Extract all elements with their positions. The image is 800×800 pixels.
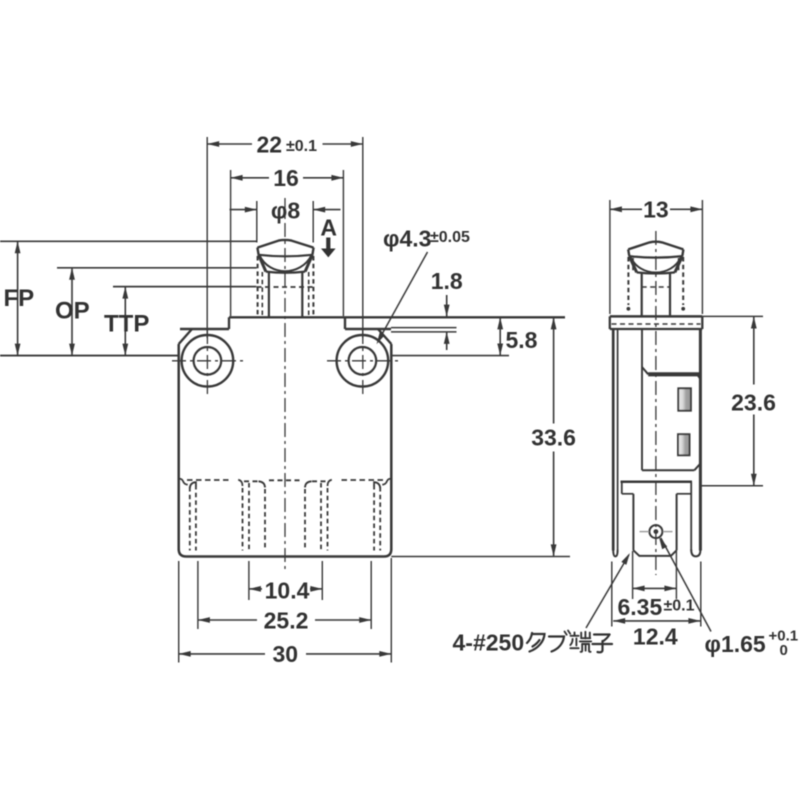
front plunger inner hidden dashed lines <box>261 272 263 316</box>
dim 10.4 extension lines <box>248 561 250 600</box>
svg-text:φ4.3: φ4.3 <box>383 226 431 252</box>
side view bracket left inner wall <box>632 494 634 551</box>
parting line left edge curve <box>179 479 188 485</box>
side view head bottom line <box>610 328 703 330</box>
side view head top line with right extension <box>610 315 703 318</box>
hidden terminal dashed line x=189.8 <box>189 487 191 551</box>
dim phi8 extension lines <box>256 201 258 243</box>
dim 6.35 extension lines <box>632 551 634 599</box>
dim 25.2 line <box>198 619 257 621</box>
front plunger cap rim bottom <box>259 255 313 256</box>
svg-text:10.4: 10.4 <box>265 578 310 604</box>
right lug horizontal centerline <box>327 360 398 362</box>
section arrow A <box>321 238 336 258</box>
terminal hole center marks <box>640 531 650 533</box>
side plunger skirt sides <box>629 256 636 272</box>
front plunger skirt inner curve <box>260 255 312 271</box>
front plunger cap dome <box>257 240 313 248</box>
dim 1.8 arrows <box>446 295 448 317</box>
parting line hook at x=305 <box>305 481 312 487</box>
hidden terminal dashed line x=321 <box>320 483 322 551</box>
leader line phi1.65 <box>661 538 711 632</box>
side view left leg U channel bottom <box>613 550 617 557</box>
dim 22 line <box>207 143 252 145</box>
svg-text:OP: OP <box>55 298 90 325</box>
front plunger stem hidden dashed line TTP level <box>257 286 314 288</box>
front plunger stem <box>268 272 270 317</box>
svg-text:TTP: TTP <box>104 311 149 338</box>
right mounting hole phi4.3 <box>349 347 377 375</box>
parting line hook into left pair <box>190 482 196 488</box>
side view right notch triangle <box>696 374 701 381</box>
left mounting lug outer circle <box>182 335 234 387</box>
dim 30 line <box>179 653 265 655</box>
side view terminal slot lower <box>678 434 690 455</box>
front view vertical centerline <box>284 198 286 571</box>
side view bracket right step <box>677 493 692 495</box>
side plunger hidden line end dots <box>627 307 631 311</box>
hidden terminal dashed line x=265 <box>264 489 266 551</box>
dim 6.35 line <box>633 587 677 589</box>
side view cover chamfer <box>642 367 648 374</box>
svg-text:12.4: 12.4 <box>633 624 678 650</box>
parting line hook at x=265 <box>259 481 266 487</box>
dim 12.4 line <box>613 620 700 622</box>
terminal hole phi1.65 <box>649 525 662 538</box>
dim 22 extension lines <box>206 137 208 338</box>
terminal label glyph TA <box>527 633 545 652</box>
front plunger hole hidden dashed lines <box>257 256 259 316</box>
right lug vertical centerline <box>362 330 364 396</box>
parting line hook at x=242 <box>238 480 242 486</box>
svg-text:25.2: 25.2 <box>264 608 309 634</box>
dim 16 line <box>231 177 269 179</box>
front view shoulder extension lines right <box>391 327 457 329</box>
side view bracket left step <box>622 493 634 495</box>
dim 13 line <box>610 208 642 210</box>
FP dimension arrow <box>17 241 19 355</box>
front view plateau top line with right extension <box>229 316 565 318</box>
TTP dimension arrow <box>124 287 126 356</box>
side view head sides <box>609 316 611 329</box>
left lug horizontal centerline <box>172 360 243 362</box>
hidden terminal dashed line x=327.5 <box>327 488 329 551</box>
left mounting hole phi4.3 <box>194 347 222 375</box>
hidden terminal dashed line x=374.1 <box>373 485 375 551</box>
hidden terminal dashed line x=195.9 <box>195 485 197 551</box>
svg-text:16: 16 <box>273 165 299 191</box>
front view right body edge <box>390 344 393 550</box>
side view lower diagonal <box>694 464 700 471</box>
terminal hole center dot <box>654 529 659 534</box>
dim 23.6 extension line bottom <box>700 485 763 487</box>
svg-text:0: 0 <box>780 642 788 659</box>
svg-text:A: A <box>320 214 337 240</box>
TTP reference line <box>113 286 256 288</box>
front plunger skirt bottom <box>266 272 305 273</box>
mounting surface line left <box>0 355 179 357</box>
svg-text:22: 22 <box>257 132 283 158</box>
front view plateau right step <box>344 317 346 329</box>
dim 25.2 extension lines <box>197 561 199 629</box>
front plunger skirt sides <box>259 255 266 272</box>
svg-text:±0.05: ±0.05 <box>430 229 470 246</box>
hidden terminal dashed line x=305 <box>304 489 306 551</box>
terminal label glyph BU <box>549 631 570 652</box>
left lug vertical centerline <box>206 330 208 396</box>
side plunger inner short dashes <box>632 258 634 272</box>
side plunger skirt inner curve <box>630 257 681 273</box>
side plunger skirt bottom <box>637 272 675 273</box>
side plunger cap rim sides <box>628 249 629 256</box>
right mounting lug outer circle <box>337 335 389 387</box>
side view bracket left lip <box>621 482 623 494</box>
svg-text:±0.1: ±0.1 <box>664 598 695 615</box>
svg-text:13: 13 <box>643 197 669 223</box>
svg-text:23.6: 23.6 <box>731 390 776 416</box>
svg-text:33.6: 33.6 <box>531 425 576 451</box>
side view case bottom line <box>621 481 693 484</box>
svg-text:6.35: 6.35 <box>618 594 663 620</box>
svg-text:φ1.65: φ1.65 <box>705 631 766 657</box>
leader line phi4.3 <box>379 252 428 340</box>
svg-text:1.8: 1.8 <box>431 268 463 294</box>
side view thick horizontal line <box>648 372 700 376</box>
svg-text:FP: FP <box>4 285 35 312</box>
svg-text:φ8: φ8 <box>271 197 300 223</box>
hidden terminal dashed line x=242.5 <box>242 488 244 551</box>
dim 10.4 line <box>249 588 262 590</box>
front view top-right chamfer <box>378 329 391 344</box>
front plunger cap rim sides <box>257 248 258 255</box>
side plunger cap rim bottom <box>629 256 682 258</box>
side view bracket right inner wall <box>676 494 678 551</box>
OP dimension arrow <box>71 268 73 356</box>
dim 23.6 line <box>753 317 755 385</box>
side view right leg U channel bottom <box>691 550 700 557</box>
side view right body edge <box>699 329 702 551</box>
side view lower horizontal line <box>642 469 694 471</box>
dim 33.6 line <box>553 317 555 423</box>
side view vertical centerline <box>655 231 657 575</box>
hidden terminal dashed line x=380.2 <box>379 487 381 551</box>
side view left body edge outer <box>612 329 615 551</box>
side plunger stem hidden dashed line <box>642 286 670 288</box>
dim phi8 arrows <box>230 209 257 211</box>
svg-text:30: 30 <box>273 641 299 667</box>
case parting line dashed left <box>187 479 229 481</box>
parting line hook into right pair <box>374 482 380 488</box>
side plunger hole hidden dashed lines <box>627 257 629 305</box>
dim 12.4 extension lines <box>611 562 613 627</box>
front view top-left chamfer <box>179 329 192 344</box>
side view terminal tab bottom <box>633 550 676 556</box>
front view body bottom <box>179 549 392 557</box>
dim 5.8 line <box>499 317 501 355</box>
side plunger cap dome <box>628 242 683 250</box>
front view left body edge <box>177 344 180 550</box>
side plunger stem <box>641 272 643 316</box>
dim 16 extension lines <box>230 170 232 316</box>
svg-text:±0.1: ±0.1 <box>286 138 317 155</box>
terminal label glyph TAN <box>570 632 591 652</box>
parting line right edge curve <box>382 479 391 485</box>
front view plateau left step <box>228 317 230 329</box>
hidden terminal dashed line x=249 <box>248 483 250 551</box>
case parting line inner dashed <box>244 480 258 482</box>
dim 30 extension lines <box>178 561 180 663</box>
front view left shoulder <box>180 328 229 330</box>
svg-text:5.8: 5.8 <box>506 327 538 353</box>
mounting surface extension line right <box>391 355 509 357</box>
FP reference line <box>0 240 257 242</box>
svg-text:4-#250: 4-#250 <box>453 630 525 656</box>
terminal label glyph KO <box>593 635 613 653</box>
terminal label leader line <box>586 555 629 628</box>
dim 13 extension lines <box>609 200 611 314</box>
side view bracket right lip <box>690 482 692 551</box>
side view terminal slot upper <box>678 388 691 410</box>
front view right shoulder <box>345 328 391 330</box>
parting line hook at x=327 <box>328 480 332 486</box>
OP reference line <box>57 267 257 269</box>
side view left body edge inner <box>617 329 619 551</box>
front view body bottom extension line right <box>391 556 570 558</box>
case parting line dashed right <box>342 479 384 481</box>
side view head hidden dashed line <box>612 323 701 325</box>
side view inner cover vertical line <box>641 329 643 470</box>
